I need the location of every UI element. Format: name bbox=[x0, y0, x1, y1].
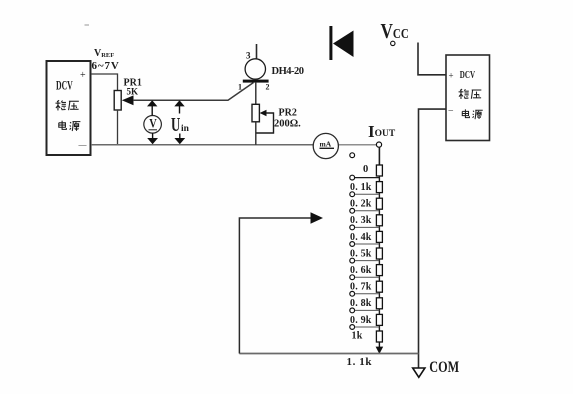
wire R5-R6 bbox=[378, 242, 380, 248]
left box label DCV bbox=[56, 80, 73, 93]
resistor R8 bbox=[376, 281, 382, 292]
tap wire 0.7k bbox=[355, 293, 380, 295]
电 bbox=[58, 121, 67, 128]
Vcc terminal circle bbox=[391, 41, 395, 45]
PR2 wiper short loop bbox=[256, 113, 274, 133]
resistor R4 bbox=[376, 215, 382, 226]
tap wire 0.2k bbox=[355, 210, 380, 212]
svg-text:mA: mA bbox=[320, 140, 332, 149]
tap wire 0.9k bbox=[355, 326, 380, 328]
压 bbox=[69, 97, 79, 106]
svg-text:VCC: VCC bbox=[381, 20, 409, 43]
transistor base bar bbox=[243, 80, 269, 83]
resistor R7 bbox=[376, 265, 382, 276]
wire from left box + to PR1 top bbox=[91, 74, 118, 91]
potentiometer PR2 body bbox=[252, 104, 259, 122]
svg-text:DH4-20: DH4-20 bbox=[272, 66, 305, 77]
right DCV regulated supply box bbox=[446, 55, 490, 141]
tap contact 0.1k bbox=[350, 192, 355, 197]
svg-text:5K: 5K bbox=[127, 87, 139, 97]
left box label 稳压 (SVG glyphs) bbox=[55, 100, 78, 110]
selector feedback wire bbox=[239, 218, 311, 354]
svg-text:+: + bbox=[80, 70, 86, 81]
wire R2-R3 bbox=[378, 193, 380, 199]
tap wire 0 bbox=[355, 177, 380, 179]
bottom rail wire bbox=[239, 353, 418, 355]
wire R1-R2 bbox=[378, 176, 380, 182]
left box label 电源 (SVG glyphs) bbox=[59, 121, 81, 131]
left box plus terminal bbox=[80, 70, 86, 81]
diode D1 (bar) bbox=[329, 26, 332, 60]
svg-text:3: 3 bbox=[246, 51, 251, 61]
left box minus terminal bbox=[78, 141, 88, 150]
tap contact 0.5k bbox=[350, 258, 355, 263]
pin number 3 bbox=[246, 51, 251, 61]
svg-text:+: + bbox=[449, 71, 454, 81]
tap contact 0.2k bbox=[350, 208, 355, 213]
node label COM bbox=[429, 360, 459, 377]
svg-text:0. 4k: 0. 4k bbox=[350, 232, 372, 243]
tap contact 0.9k bbox=[350, 325, 355, 330]
PR1 value 5K bbox=[127, 87, 139, 97]
svg-text:0. 8k: 0. 8k bbox=[350, 298, 372, 309]
voltmeter V letter bbox=[149, 117, 157, 131]
ground COM symbol bbox=[413, 368, 425, 377]
tap label 0.3k bbox=[350, 215, 372, 226]
transistor label DH4-20 bbox=[272, 66, 305, 77]
PR1 wiper arrow bbox=[122, 95, 134, 105]
Iout terminal circle bbox=[376, 142, 381, 147]
tap label 0.6k bbox=[350, 265, 372, 276]
Uin up arrow bbox=[174, 100, 184, 113]
PR2 wiper arrow bbox=[260, 110, 267, 116]
label 1.1k bbox=[347, 356, 373, 368]
scan speck bbox=[85, 24, 90, 26]
voltmeter V circle bbox=[144, 116, 162, 134]
tap contact 0 bbox=[350, 175, 355, 180]
tap label 0.8k bbox=[350, 298, 372, 309]
tap contact 0.4k bbox=[350, 242, 355, 247]
svg-text:V: V bbox=[149, 117, 157, 131]
tap label 0.7k bbox=[350, 282, 372, 293]
svg-text:0. 6k: 0. 6k bbox=[350, 265, 372, 276]
tap contact 0.7k bbox=[350, 291, 355, 296]
selector arrow head bbox=[311, 212, 324, 223]
wire bar to PR2 bbox=[255, 83, 257, 105]
PR2 label bbox=[279, 107, 297, 118]
PR2 value 200ohm bbox=[274, 119, 301, 130]
wire R3-R4 bbox=[378, 209, 380, 215]
svg-text:—: — bbox=[78, 141, 88, 150]
PR1 label bbox=[124, 78, 142, 89]
wire Vcc riser to right box + bbox=[418, 43, 446, 75]
pin number 2 bbox=[266, 83, 270, 92]
svg-text:1k: 1k bbox=[352, 331, 363, 342]
tap label 0.5k bbox=[350, 248, 372, 259]
voltmeter down arrow bbox=[147, 133, 158, 144]
right box minus bbox=[448, 105, 454, 115]
svg-text:–: – bbox=[448, 105, 454, 115]
lower rail wire bbox=[91, 144, 314, 146]
svg-text:1: 1 bbox=[238, 83, 242, 92]
wire R6-R7 bbox=[378, 259, 380, 265]
potentiometer PR1 body bbox=[114, 91, 121, 111]
resistor R9 bbox=[376, 298, 382, 309]
svg-text:VREF: VREF bbox=[94, 48, 114, 59]
wire PR1 bottom to lower rail bbox=[117, 110, 119, 145]
svg-text:6~7V: 6~7V bbox=[92, 60, 120, 72]
tap contact 0.3k bbox=[350, 225, 355, 230]
resistor R10 bbox=[376, 314, 382, 325]
switch pole contact (open) bbox=[350, 153, 355, 158]
tap contact 0.6k bbox=[350, 275, 355, 280]
right box label 稳压 bbox=[459, 89, 482, 99]
Uin label bbox=[171, 113, 190, 135]
left DCV regulated supply box bbox=[47, 61, 91, 155]
tap wire 0.5k bbox=[355, 260, 380, 262]
tap label 0 bbox=[363, 164, 368, 175]
label 6~7V bbox=[92, 60, 120, 72]
Iout label bbox=[368, 122, 396, 141]
resistor R2 bbox=[376, 182, 382, 193]
right box label DCV bbox=[460, 68, 475, 80]
voltmeter underline bbox=[149, 129, 158, 131]
svg-text:U: U bbox=[171, 113, 180, 135]
svg-text:0: 0 bbox=[363, 164, 368, 175]
diode D1 (triangle) bbox=[333, 31, 354, 58]
wire R7-R8 bbox=[378, 276, 380, 282]
chain output down arrow bbox=[376, 342, 384, 354]
svg-text:0. 3k: 0. 3k bbox=[350, 215, 372, 226]
tap label 0.9k bbox=[350, 315, 372, 326]
tap wire 0.4k bbox=[355, 243, 380, 245]
node VREF label bbox=[94, 48, 114, 59]
transistor DH4-20 body circle bbox=[245, 59, 265, 79]
wire R10-R11 bbox=[378, 325, 380, 331]
tap contact 0.8k bbox=[350, 308, 355, 313]
mA text bbox=[320, 140, 332, 149]
稳 bbox=[57, 100, 59, 101]
svg-text:0. 2k: 0. 2k bbox=[350, 199, 372, 210]
tap wire 0.6k bbox=[355, 276, 380, 278]
voltmeter up arrow bbox=[147, 100, 157, 115]
resistor R3 bbox=[376, 198, 382, 209]
wire R8-R9 bbox=[378, 292, 380, 298]
lower rail wire right of mA meter bbox=[339, 144, 377, 146]
resistor R1 bbox=[376, 165, 382, 176]
tap label 0.2k bbox=[350, 199, 372, 210]
Vcc label bbox=[381, 20, 409, 43]
right box label 电源 bbox=[462, 109, 482, 119]
wire right box minus down to ground bbox=[419, 109, 447, 367]
svg-text:IOUT: IOUT bbox=[368, 122, 396, 141]
svg-text:COM: COM bbox=[429, 360, 459, 377]
svg-text:PR2: PR2 bbox=[279, 107, 297, 118]
tap label 0.4k bbox=[350, 232, 372, 243]
resistor R5 bbox=[376, 231, 382, 242]
svg-text:DCV: DCV bbox=[56, 80, 73, 93]
svg-text:0. 1k: 0. 1k bbox=[350, 182, 372, 193]
svg-text:0. 7k: 0. 7k bbox=[350, 282, 372, 293]
svg-text:DCV: DCV bbox=[460, 68, 475, 80]
wire base: PR1 wiper to transistor bbox=[133, 83, 254, 101]
mA underline bbox=[320, 147, 335, 149]
resistor chain top wire bbox=[378, 147, 380, 165]
label 1k bbox=[352, 331, 363, 342]
svg-text:in: in bbox=[181, 124, 190, 134]
milliammeter mA circle bbox=[313, 133, 338, 158]
svg-text:2: 2 bbox=[266, 83, 270, 92]
svg-text:0. 9k: 0. 9k bbox=[350, 315, 372, 326]
svg-text:1. 1k: 1. 1k bbox=[347, 356, 373, 368]
Uin down arrow bbox=[174, 134, 185, 145]
wire R4-R5 bbox=[378, 226, 380, 232]
right box plus bbox=[449, 71, 454, 81]
svg-text:200Ω.: 200Ω. bbox=[274, 119, 301, 130]
resistor R11 bbox=[376, 331, 382, 342]
tap wire 0.1k bbox=[355, 193, 380, 195]
tap wire 0.3k bbox=[355, 226, 380, 228]
transistor Q1 DH4-20 pin3 lead bbox=[256, 44, 258, 59]
wire R9-R10 bbox=[378, 309, 380, 315]
svg-text:0. 5k: 0. 5k bbox=[350, 248, 372, 259]
tap wire 0.8k bbox=[355, 309, 380, 311]
pin number 1 bbox=[238, 83, 242, 92]
wire PR2 bottom to lower rail bbox=[255, 122, 257, 145]
resistor R6 bbox=[376, 248, 382, 259]
源 bbox=[70, 122, 71, 123]
tap label 0.1k bbox=[350, 182, 372, 193]
